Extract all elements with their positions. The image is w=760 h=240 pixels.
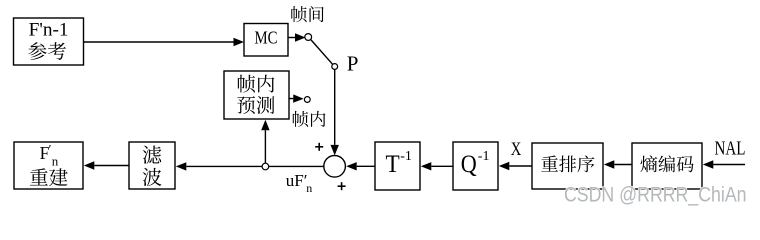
wire F'n-1 to MC xyxy=(84,38,244,46)
wire junction up to intra prediction xyxy=(261,120,269,164)
svg-text:CSDN @RRRR_ChiAn: CSDN @RRRR_ChiAn xyxy=(564,183,747,207)
svg-text:MC: MC xyxy=(255,28,278,48)
wire NAL input xyxy=(703,160,745,168)
svg-text:X: X xyxy=(511,140,522,160)
svg-text:n: n xyxy=(306,181,312,195)
label plus upper-left xyxy=(315,143,323,151)
wire reorder to Q-1 xyxy=(499,162,532,170)
svg-text:T: T xyxy=(386,151,400,178)
node junction on feedback wire xyxy=(262,163,269,170)
wire MC to inter contact xyxy=(288,33,306,41)
svg-text:NAL: NAL xyxy=(715,139,746,160)
wire T-1 to summing node xyxy=(346,162,375,170)
box U2 motion compensation MC xyxy=(244,24,288,57)
node summing junction xyxy=(324,156,346,178)
wire filter to reconstructed frame xyxy=(84,161,129,169)
label 帧间 (inter) xyxy=(291,6,324,22)
box U7 entropy coding 熵编码 xyxy=(632,143,702,189)
wire summing node to filter xyxy=(176,162,324,170)
svg-text:n: n xyxy=(52,154,59,169)
box U1 reference frame F'n-1/参考 xyxy=(14,18,84,65)
node P switch pole xyxy=(332,64,338,70)
node inter-frame contact xyxy=(305,34,312,41)
svg-text:uF′: uF′ xyxy=(286,171,308,190)
wire intra prediction to intra contact xyxy=(289,94,304,102)
wire Q-1 to T-1 xyxy=(421,162,453,170)
wire switch arm to P xyxy=(311,40,333,65)
box U6 reorder 重排序 xyxy=(532,143,603,189)
box U3 intra prediction 帧内/预测 xyxy=(224,71,289,119)
box U8 filter 滤波 xyxy=(129,142,175,189)
svg-text:-1: -1 xyxy=(478,149,490,164)
box U9 reconstructed frame F'n/重建 xyxy=(14,142,83,190)
box U5 inverse quantizer Q-1 xyxy=(453,142,498,190)
svg-text:F'n-1: F'n-1 xyxy=(29,21,69,41)
box U4 inverse transform T-1 xyxy=(375,142,420,190)
label 帧内 (intra) xyxy=(293,111,326,127)
label plus lower-right xyxy=(338,182,346,190)
svg-text:-1: -1 xyxy=(400,149,412,164)
wire P down to summing node xyxy=(331,69,339,155)
label uF'n xyxy=(286,171,312,195)
svg-text:Q: Q xyxy=(461,151,477,178)
wire entropy decode to reorder xyxy=(604,160,632,168)
node intra-frame contact xyxy=(304,97,310,103)
svg-text:P: P xyxy=(347,51,359,75)
